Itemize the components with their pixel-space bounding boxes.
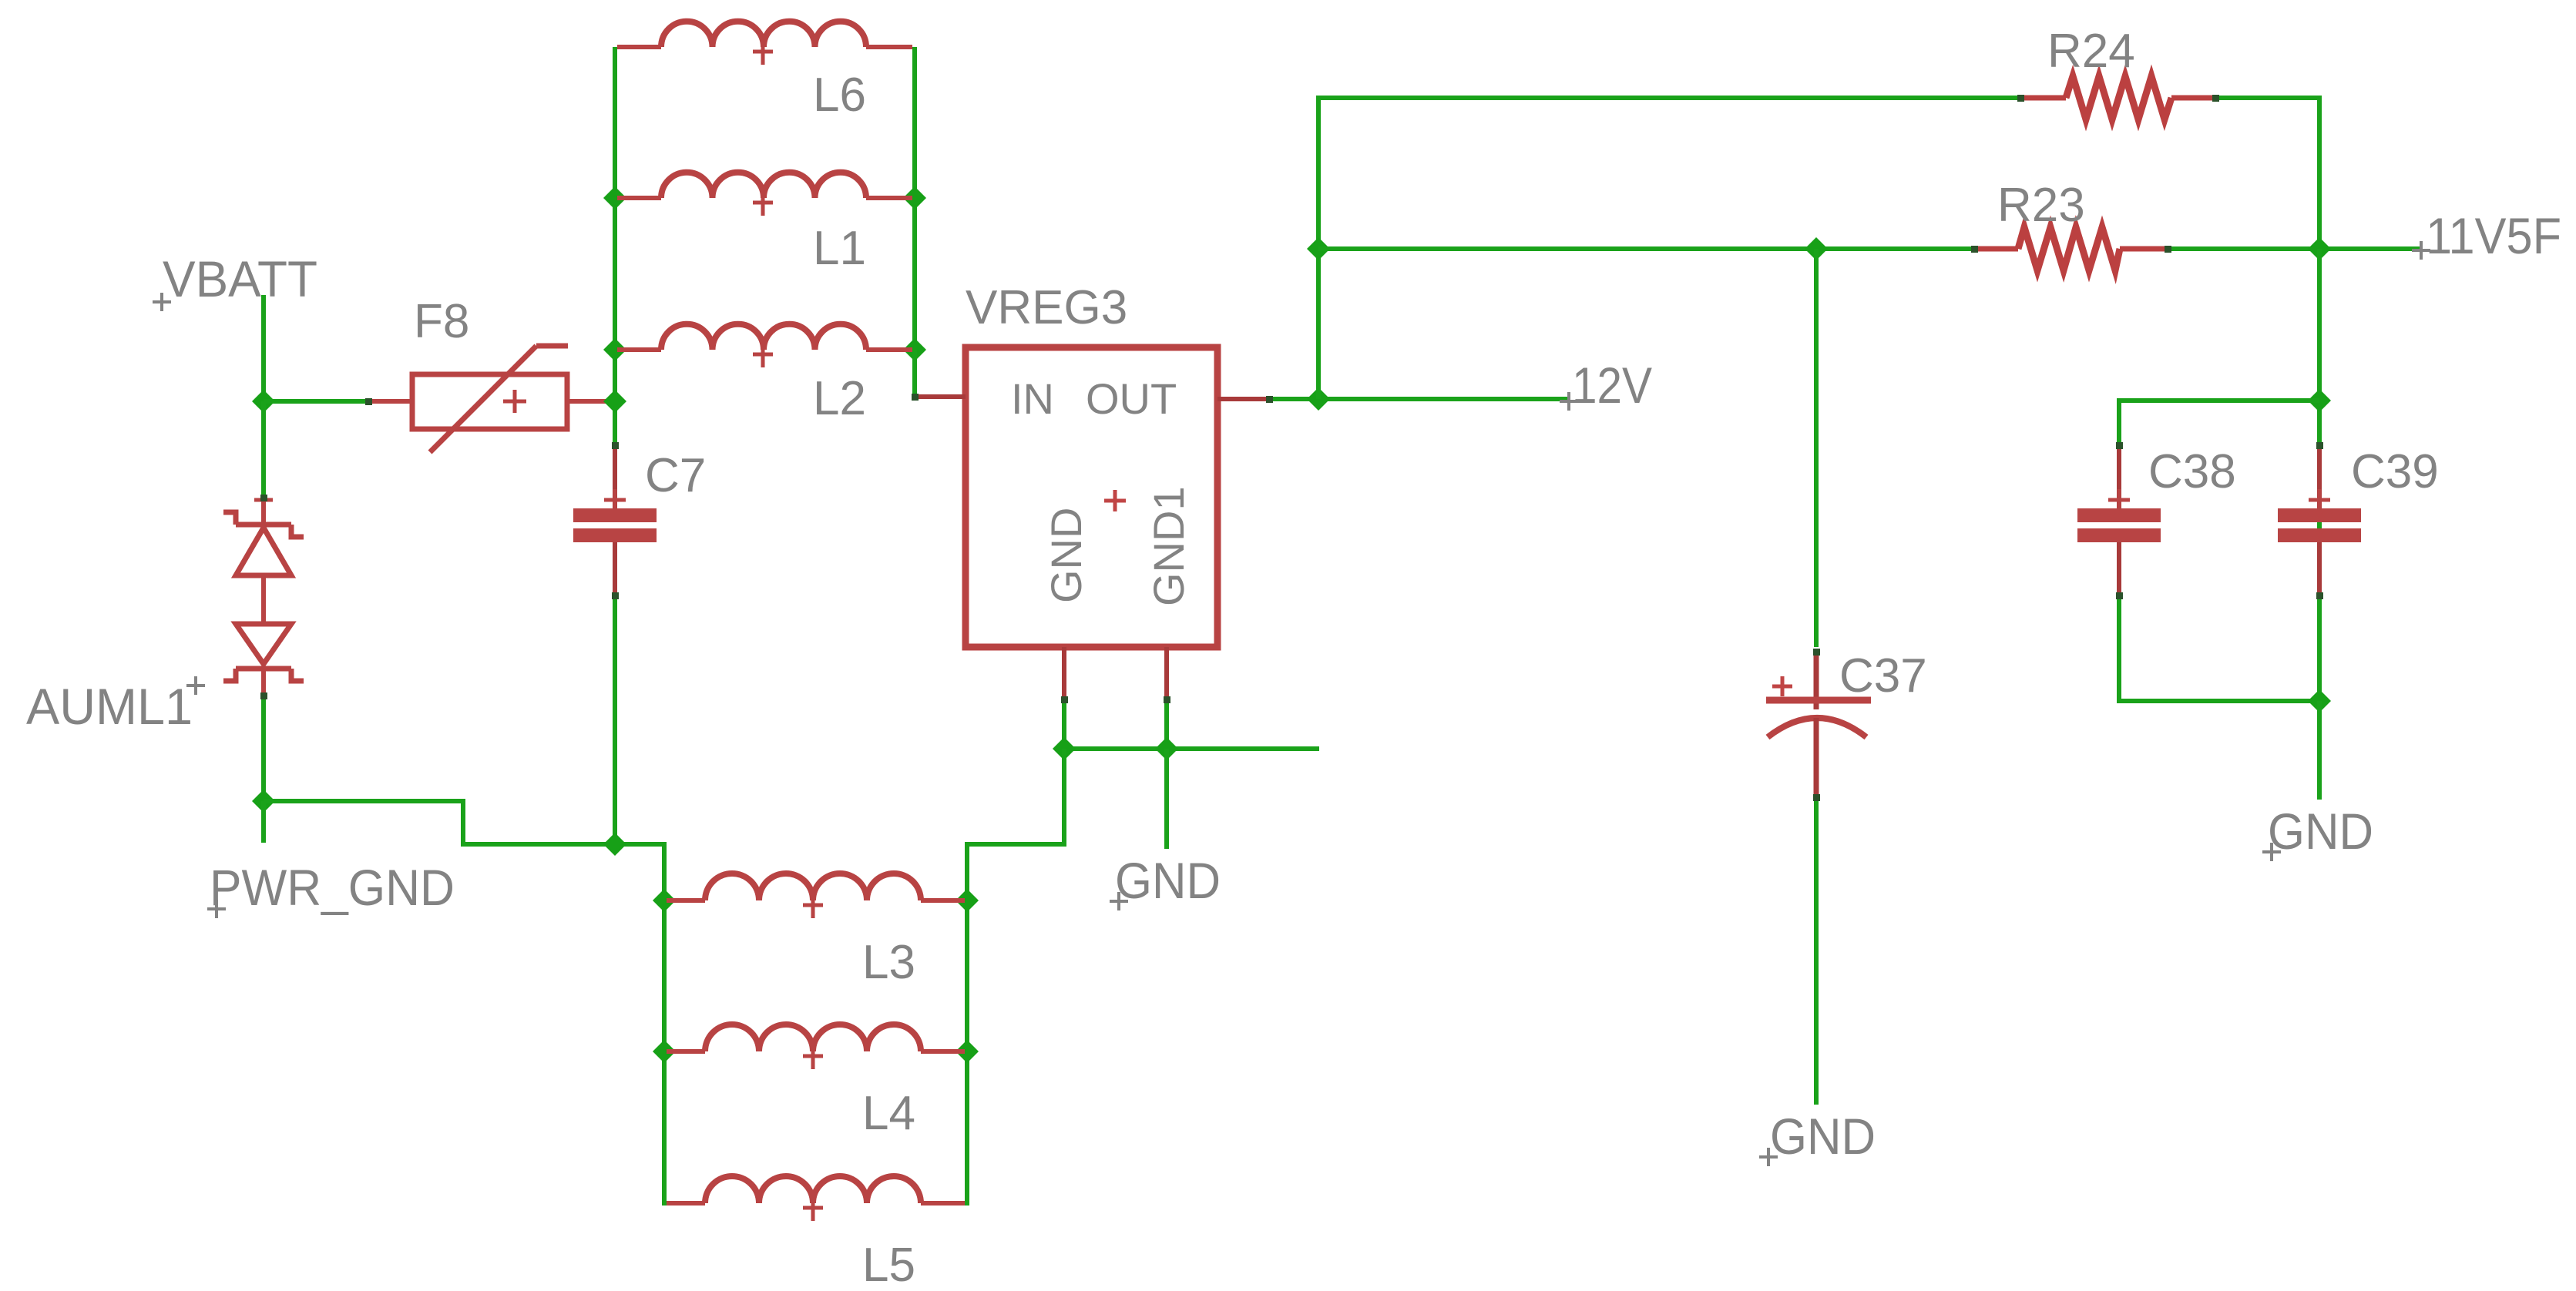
wire left inductor bus: [613, 47, 617, 445]
wire diode stack top (green): [261, 401, 266, 498]
wire VBATT junction to fuse: [264, 399, 368, 404]
svg-text:F8: F8: [414, 295, 469, 348]
pin GND wire: [1062, 647, 1066, 749]
node VBATT junction: [252, 390, 275, 413]
svg-text:VREG3: VREG3: [966, 281, 1127, 334]
wire right bus down to caps: [2317, 249, 2322, 701]
svg-text:L5: L5: [862, 1239, 915, 1291]
svg-text:L3: L3: [862, 936, 915, 989]
node R23 tap junction: [1307, 237, 1330, 260]
wire C38 bottom branch: [2119, 596, 2319, 701]
svg-text:L2: L2: [813, 372, 866, 425]
resistor R24: [2020, 76, 2215, 119]
wire L bank to GND bus: [967, 749, 1064, 900]
net label PWR_GND: [207, 859, 455, 918]
svg-text:11V5F: 11V5F: [2426, 207, 2561, 264]
svg-text:C7: C7: [645, 449, 706, 502]
wire C38 top branch: [2119, 401, 2319, 445]
svg-text:12V: 12V: [1572, 357, 1652, 414]
wire GND label stub: [1164, 749, 1169, 849]
pin GND1 wire: [1164, 647, 1169, 749]
node C37 tap junction: [1805, 237, 1828, 260]
net label GND (right): [2262, 803, 2373, 861]
net label VBATT: [153, 250, 317, 311]
svg-text:L6: L6: [813, 69, 866, 122]
fuse F8: [368, 346, 615, 452]
wire diode bottom to PWR_GND junction: [261, 696, 266, 801]
wire right L3 bus: [958, 844, 967, 1203]
wire GND stub right: [2317, 701, 2322, 800]
svg-text:GND: GND: [1042, 508, 1090, 603]
node L3 left junction: [653, 889, 676, 912]
wire C39 bottom: [2317, 596, 2322, 701]
svg-text:AUML1: AUML1: [26, 678, 193, 735]
node L3 right junction: [956, 889, 979, 912]
node L1 right junction: [903, 186, 926, 210]
svg-text:GND: GND: [1115, 852, 1221, 909]
wire right inductor bus: [912, 47, 917, 397]
inductor L3: [667, 874, 965, 918]
wire VBATT vertical: [261, 295, 266, 401]
node fuse-output junction: [603, 390, 626, 413]
net label GND (under VREG3): [1110, 852, 1221, 910]
svg-text:L4: L4: [862, 1087, 915, 1140]
node L4 left junction: [653, 1040, 676, 1063]
svg-text:R23: R23: [1997, 179, 2085, 232]
node OUT junction: [1307, 387, 1330, 411]
svg-text:R24: R24: [2047, 25, 2135, 78]
wire C7 bottom to PWR_GND bus: [613, 596, 617, 844]
node L2 right junction: [903, 338, 926, 361]
capacitor C38: [2077, 445, 2161, 596]
capacitor C37: [1766, 652, 1871, 798]
node C38/C39 top junction: [2308, 389, 2331, 412]
voltage regulator VREG3: [966, 347, 1217, 647]
node L4 right junction: [956, 1040, 979, 1063]
wire OUT to 12V: [1269, 397, 1570, 401]
inductor L6: [617, 22, 912, 65]
node 1V5F junction: [2308, 237, 2331, 260]
svg-text:GND1: GND1: [1144, 486, 1193, 606]
node GND junction: [1053, 737, 1076, 760]
net label 11V5F: [2412, 207, 2561, 264]
wire GND bus under VREG3: [1064, 746, 1319, 751]
node L2 left junction: [603, 338, 626, 361]
svg-text:GND: GND: [1770, 1108, 1876, 1165]
svg-text:PWR_GND: PWR_GND: [210, 859, 455, 916]
svg-text:C39: C39: [2351, 445, 2439, 498]
wire R24 right to corner: [2215, 98, 2319, 249]
resistor R23: [1974, 227, 2168, 270]
svg-text:C38: C38: [2148, 445, 2236, 498]
transil diode D (AUML1 net): [223, 498, 304, 696]
node C7 bus junction: [603, 833, 626, 856]
node GND1 junction: [1155, 737, 1178, 760]
wire C37 bottom to GND: [1814, 801, 1819, 1105]
wire pin-junction dots: [260, 95, 2323, 801]
svg-text:C37: C37: [1839, 649, 1927, 703]
pin IN wire: [915, 350, 966, 397]
wire PWR_GND bus to L bank: [264, 801, 664, 900]
wire PWR_GND label stub: [261, 801, 266, 843]
inductor L5: [667, 1176, 965, 1221]
svg-text:VBATT: VBATT: [163, 250, 317, 307]
node PWR_GND junction: [252, 790, 275, 813]
svg-text:GND: GND: [2268, 803, 2373, 860]
wire R23 right to 1V5F: [2168, 246, 2423, 251]
pin OUT wire: [1217, 397, 1269, 401]
svg-text:OUT: OUT: [1086, 374, 1177, 423]
node L1 left junction: [603, 186, 626, 210]
net label 12V: [1560, 357, 1652, 414]
net label AUML1: [26, 676, 205, 735]
svg-text:IN: IN: [1011, 374, 1054, 423]
wire top feedback run: [1318, 98, 2020, 399]
net label GND (C37): [1759, 1108, 1876, 1166]
svg-text:L1: L1: [813, 222, 866, 275]
capacitor C39: [2278, 445, 2361, 596]
wire R23 row left: [1318, 246, 1974, 251]
node caps bottom junction: [2308, 689, 2331, 713]
inductor L1: [617, 173, 912, 216]
inductor L2: [617, 324, 912, 367]
wire C37 top branch: [1814, 249, 1819, 647]
inductor L4: [667, 1024, 965, 1069]
capacitor C7: [573, 445, 657, 596]
wire left L3 bus: [664, 844, 673, 1203]
